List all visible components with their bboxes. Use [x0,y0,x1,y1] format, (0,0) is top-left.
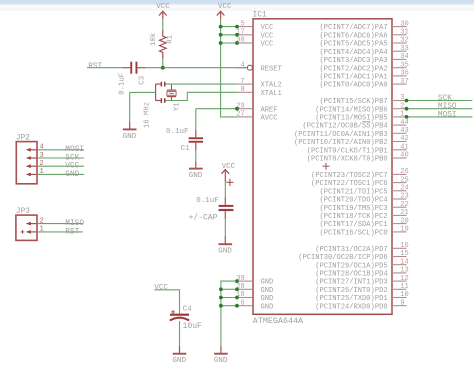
svg-text:(PCINT13/MOSI)PB5: (PCINT13/MOSI)PB5 [315,115,387,123]
svg-text:GND: GND [189,172,203,180]
wire AREF [196,108,237,110]
ground symbol (Y1) [123,122,137,141]
svg-text:GND: GND [261,279,274,287]
svg-text:(PCINT14/MISO)PB6: (PCINT14/MISO)PB6 [315,106,387,114]
pin 12 (PCINT27/INT1)PD3 (right) [315,275,409,287]
pin 29 AREF (left) [236,102,277,114]
svg-text:0.1uF: 0.1uF [196,197,219,205]
pin 36 (PCINT1/ADC1)PA1 (right) [319,70,408,82]
wire MOSI (IC right) [407,116,473,118]
svg-text:GND: GND [214,357,228,365]
svg-text:12: 12 [400,275,409,283]
svg-text:2: 2 [40,217,44,225]
svg-text:1: 1 [40,168,44,176]
pin 6 GND (left) [237,299,273,311]
svg-text:MISO: MISO [65,220,84,228]
svg-text:GND: GND [123,133,137,141]
svg-text:22: 22 [400,201,409,209]
pin 21 (PCINT18/TCK)PC2 (right) [319,209,408,221]
svg-text:2: 2 [40,160,44,168]
junction RST/R1 [161,66,165,70]
pin 23 (PCINT20/TDO)PC4 (right) [319,193,408,205]
svg-text:3: 3 [40,152,44,160]
wire VCC rail to pin row 2 [221,42,237,44]
pin 14 (PCINT29/OC1A)PD5 (right) [315,258,409,270]
wire GND rail to pin row 32 [221,288,237,290]
svg-text:6: 6 [241,299,245,307]
svg-text:RST: RST [65,228,79,236]
wire VCC to R1 [162,19,164,30]
svg-text:15: 15 [400,250,409,258]
pin 20 (PCINT17/SDA)PC1 (right) [319,217,408,229]
pin 32 (PCINT5/ADC5)PA5 (right) [319,37,408,49]
pin 33 (PCINT4/ADC4)PA4 (right) [319,45,408,57]
svg-text:C4: C4 [183,306,193,314]
svg-text:10: 10 [400,291,409,299]
svg-text:RST: RST [88,63,102,71]
svg-text:VCC: VCC [218,3,232,11]
pin 27 AVCC (left) [236,111,277,123]
svg-text:+/-CAP: +/-CAP [189,213,218,222]
wire RST to C3 [87,67,122,69]
wire VCC to C4 [154,290,179,314]
svg-text:32: 32 [400,37,409,45]
svg-text:23: 23 [400,193,409,201]
svg-text:Y1: Y1 [174,102,182,111]
svg-text:VCC: VCC [261,41,274,49]
pin 40 (PCINT8/XCK0/T0)PB0 (right) [307,152,409,164]
wire JP2 pin 4 to MOSI [37,149,84,151]
svg-text:20: 20 [400,217,409,225]
svg-text:37: 37 [400,78,409,86]
pin 8 XTAL1 (left) [237,86,282,98]
connector JP3 [16,215,37,240]
capacitor C3 0.1uF [122,62,145,74]
svg-text:ATMEGA644A: ATMEGA644A [253,316,304,326]
svg-text:JP3: JP3 [16,208,30,216]
pin 44 (PCINT12/OC0B/SS)PB4 (right) [302,119,408,131]
power VCC symbol (+/-CAP) [222,170,230,178]
svg-text:GND: GND [261,287,274,295]
svg-text:(PCINT6/ADC6)PA6: (PCINT6/ADC6)PA6 [319,32,387,40]
pin 16 (PCINT31/OC2A)PD7 (right) [315,242,409,254]
svg-text:R1: R1 [166,34,174,43]
svg-text:25: 25 [400,176,409,184]
svg-text:21: 21 [400,209,409,217]
IC IC1 ATMEGA644A body [253,19,392,315]
power VCC symbol (R1 top) [159,11,167,19]
svg-text:31: 31 [400,29,409,37]
pin 18 GND (left) [236,291,273,303]
wire Y1 gnd tap [130,91,156,93]
svg-text:(PCINT1/ADC1)PA1: (PCINT1/ADC1)PA1 [319,74,387,82]
svg-text:(PCINT16/SCL)PC0: (PCINT16/SCL)PC0 [319,230,387,238]
svg-text:14: 14 [400,258,409,266]
pin 4 RESET (left) [237,61,282,73]
svg-text:16 MHz: 16 MHz [144,102,152,128]
junction GND pin [235,296,239,300]
svg-text:VCC: VCC [222,163,236,171]
ground symbol (C2) [218,236,232,255]
pin 15 (PCINT30/OC2B/ICP)PD6 (right) [298,250,409,262]
svg-text:16: 16 [400,242,409,250]
wire VCC to C2 [224,182,226,197]
junction VCC rail [219,41,223,45]
svg-text:(PCINT10/INT2/AIN0)PB2: (PCINT10/INT2/AIN0)PB2 [294,139,388,147]
pin 31 (PCINT6/ADC6)PA6 (right) [319,29,408,41]
ground symbol (C4) [172,346,186,365]
pin 42 (PCINT10/INT2/AIN0)PB2 (right) [294,135,409,147]
svg-text:XTAL2: XTAL2 [261,82,282,90]
svg-text:MOSI: MOSI [65,146,84,154]
svg-text:(PCINT9/CLKO/T1)PB1: (PCINT9/CLKO/T1)PB1 [307,147,388,155]
svg-text:VCC: VCC [261,32,274,40]
wire JP2 pin 3 to SCK [37,157,84,159]
junction GND rail [219,304,223,308]
svg-text:(PCINT30/OC2B/ICP)PD6: (PCINT30/OC2B/ICP)PD6 [298,254,387,262]
svg-text:43: 43 [400,127,409,135]
pin 41 (PCINT9/CLKO/T1)PB1 (right) [307,144,409,156]
wire GND rail to pin row 33 [221,297,237,299]
svg-text:(PCINT8/XCK0/T0)PB0: (PCINT8/XCK0/T0)PB0 [307,156,388,164]
pin 30 (PCINT7/ADC7)PA7 (right) [319,20,408,32]
svg-text:(PCINT7/ADC7)PA7: (PCINT7/ADC7)PA7 [319,24,387,32]
connector JP2 [16,142,37,184]
svg-text:10k: 10k [150,32,158,46]
wire C1 to GND [195,151,197,162]
svg-text:AREF: AREF [261,106,278,114]
wire JP2 pin 1 to GND [37,173,84,175]
svg-text:1: 1 [40,226,44,234]
svg-text:26: 26 [400,168,409,176]
wire JP3 pin 2 to MISO [37,223,83,225]
wire C3 to RESET pin [145,67,247,69]
svg-text:(PCINT22/TOSC1)PC6: (PCINT22/TOSC1)PC6 [311,180,388,188]
svg-text:GND: GND [65,171,79,179]
pin 25 (PCINT22/TOSC1)PC6 (right) [311,176,409,188]
svg-text:(PCINT31/OC2A)PD7: (PCINT31/OC2A)PD7 [315,246,387,254]
capacitor C1 0.1uF [189,130,204,151]
svg-text:(PCINT28/OC1B)PD4: (PCINT28/OC1B)PD4 [315,271,387,279]
pin 5 VCC (left) [237,20,273,32]
wire Y1 to XTAL2 [166,83,238,85]
pin 13 (PCINT28/OC1B)PD4 (right) [315,267,409,279]
pin 37 (PCINT0/ADC0)PA0 (right) [319,78,408,90]
wire to GND (Y1) [129,92,131,121]
resistor R1 10k [160,30,167,59]
svg-text:11: 11 [400,283,409,291]
svg-text:(PCINT12/OC0B/SS)PB4: (PCINT12/OC0B/SS)PB4 [302,123,387,131]
svg-text:(PCINT4/ADC4)PA4: (PCINT4/ADC4)PA4 [319,49,387,57]
svg-text:(PCINT5/ADC5)PA5: (PCINT5/ADC5)PA5 [319,41,387,49]
pin 22 (PCINT19/TMS)PC3 (right) [319,201,408,213]
svg-text:GND: GND [218,248,232,256]
pin 39 GND (left) [236,275,273,287]
svg-text:10uF: 10uF [183,322,202,331]
junction VCC pin [235,41,239,45]
svg-text:44: 44 [400,119,409,127]
svg-text:30: 30 [400,20,409,28]
svg-text:(PCINT27/INT1)PD3: (PCINT27/INT1)PD3 [315,279,387,287]
ground symbol (IC GND pins) [214,346,228,365]
capacitor C4 10uF (polarized) [170,310,189,321]
svg-text:42: 42 [400,135,409,143]
svg-text:35: 35 [400,61,409,69]
junction VCC rail [219,25,223,29]
svg-text:MISO: MISO [438,103,457,111]
pin 38 VCC (left) [236,37,273,49]
junction GND rail [219,296,223,300]
junction VCC pin [235,33,239,37]
pin 10 (PCINT25/TXD0)PD1 (right) [315,291,409,303]
svg-text:24: 24 [400,185,409,193]
svg-text:(PCINT0/ADC0)PA0: (PCINT0/ADC0)PA0 [319,82,387,90]
pin 19 (PCINT16/SCL)PC0 (right) [319,226,408,238]
pin 34 (PCINT3/ADC3)PA3 (right) [319,53,408,65]
junction VCC pin [235,25,239,29]
svg-text:(PCINT20/TDO)PC4: (PCINT20/TDO)PC4 [319,197,387,205]
svg-text:VCC: VCC [261,24,274,32]
svg-text:9: 9 [400,299,404,307]
junction GND pin [235,287,239,291]
svg-text:33: 33 [400,45,409,53]
svg-text:(PCINT17/SDA)PC1: (PCINT17/SDA)PC1 [319,221,387,229]
svg-text:(PCINT2/ADC2)PA2: (PCINT2/ADC2)PA2 [319,65,387,73]
pin 1 (PCINT13/MOSI)PB5 (right) [315,111,406,123]
svg-text:JP2: JP2 [16,135,30,143]
svg-text:19: 19 [400,226,409,234]
svg-text:(PCINT29/OC1A)PD5: (PCINT29/OC1A)PD5 [315,262,387,270]
svg-text:5: 5 [241,20,245,28]
svg-text:(PCINT21/TDI)PC5: (PCINT21/TDI)PC5 [319,188,387,196]
pin 26 (PCINT23/TOSC2)PC7 (right) [311,168,409,180]
svg-text:MOSI: MOSI [438,111,457,119]
svg-text:(PCINT19/TMS)PC3: (PCINT19/TMS)PC3 [319,205,387,213]
junction VCC rail [219,33,223,37]
svg-text:GND: GND [261,295,274,303]
pin 35 (PCINT2/ADC2)PA2 (right) [319,61,408,73]
pin 7 XTAL2 (left) [237,78,282,90]
wire GND rail [221,281,237,346]
svg-text:34: 34 [400,53,409,61]
svg-text:GND: GND [261,303,274,311]
junction MOSI pin [405,115,409,119]
wire JP3 pin 1 to RST [37,231,83,233]
pin 11 (PCINT26/INT0)PD2 (right) [315,283,409,295]
wire VCC rail to AVCC [221,19,237,117]
svg-text:(PCINT15/SCK)PB7: (PCINT15/SCK)PB7 [319,98,387,106]
svg-text:SCK: SCK [65,154,79,162]
pin 9 (PCINT24/RXD0)PD0 (right) [315,299,406,311]
svg-text:7: 7 [241,78,245,86]
power VCC symbol (rail) [217,11,225,19]
svg-text:RESET: RESET [261,65,282,73]
wire JP2 pin 2 to VCC [37,165,84,167]
junction GND pin [235,304,239,308]
svg-text:2: 2 [400,102,404,110]
wire C2 to GND [224,219,226,236]
svg-text:AVCC: AVCC [261,115,278,123]
junction GND pin [235,279,239,283]
wire VCC rail to pin row 0 [221,26,237,28]
pin 17 VCC (left) [236,29,273,41]
wire VCC rail to pin row 1 [221,34,237,36]
svg-text:VCC: VCC [65,163,79,171]
junction GND rail [219,287,223,291]
IC origin cross [323,163,330,170]
svg-text:(PCINT24/RXD0)PD0: (PCINT24/RXD0)PD0 [315,303,387,311]
wire MISO (IC right) [407,108,473,110]
svg-text:XTAL1: XTAL1 [261,90,282,98]
pin 3 (PCINT15/SCK)PB7 (right) [319,94,406,106]
wire R1 to RST net [162,59,164,68]
svg-text:41: 41 [400,144,409,152]
svg-text:1: 1 [400,111,404,119]
junction MISO pin [405,107,409,111]
svg-text:8: 8 [241,86,245,94]
svg-text:(PCINT11/OC0A/AIN1)PB3: (PCINT11/OC0A/AIN1)PB3 [294,131,388,139]
ground symbol (C1) [189,161,203,180]
svg-text:GND: GND [172,357,186,365]
wire SCK (IC right) [407,100,473,102]
pin 28 GND (left) [236,283,273,295]
junction SCK pin [405,99,409,103]
svg-text:(PCINT26/INT0)PD2: (PCINT26/INT0)PD2 [315,287,387,295]
svg-text:(PCINT18/TCK)PC2: (PCINT18/TCK)PC2 [319,213,387,221]
pin 43 (PCINT11/OC0A/AIN1)PB3 (right) [294,127,409,139]
svg-text:C1: C1 [181,145,191,153]
crystal/resonator Y1 16 MHz [156,82,177,103]
svg-text:VCC: VCC [154,284,168,292]
svg-text:27: 27 [236,111,245,119]
svg-text:4: 4 [40,144,44,152]
svg-text:IC1: IC1 [253,10,267,19]
wire Y1 to XTAL1 [166,92,238,100]
wire AREF to C1 [195,109,197,130]
capacitor C2 +/-CAP 0.1uF [219,179,234,219]
svg-text:0.1uF: 0.1uF [118,73,126,95]
svg-text:36: 36 [400,70,409,78]
junction AREF pin [235,107,239,111]
svg-text:C3: C3 [139,76,147,85]
svg-text:VCC: VCC [156,3,170,11]
svg-text:(PCINT23/TOSC2)PC7: (PCINT23/TOSC2)PC7 [311,172,388,180]
svg-text:40: 40 [400,152,409,160]
svg-text:13: 13 [400,267,409,275]
svg-text:3: 3 [400,94,404,102]
wire GND rail to pin row 34 [221,305,237,307]
pin 2 (PCINT14/MISO)PB6 (right) [315,102,406,114]
svg-text:(PCINT25/TXD0)PD1: (PCINT25/TXD0)PD1 [315,295,387,303]
wire C4 to GND [179,321,181,346]
pin 24 (PCINT21/TDI)PC5 (right) [319,185,408,197]
svg-text:SCK: SCK [438,95,452,103]
svg-text:(PCINT3/ADC3)PA3: (PCINT3/ADC3)PA3 [319,57,387,65]
svg-text:0.1uF: 0.1uF [166,128,189,136]
